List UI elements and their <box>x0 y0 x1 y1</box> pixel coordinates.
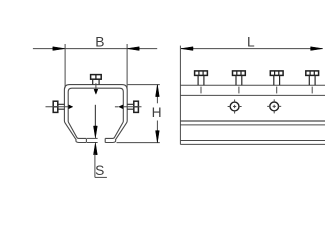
dimension line H upper <box>156 85 158 104</box>
rail top edge <box>180 84 325 86</box>
dimension line B <box>33 48 157 50</box>
svg-text:H: H <box>152 105 162 120</box>
right bolt shank <box>127 104 134 109</box>
rail lower inner line <box>180 140 325 142</box>
rail upper inner line <box>180 94 325 96</box>
extension line H top <box>128 84 160 86</box>
extension line B right <box>126 44 128 88</box>
rail middle line lower <box>180 124 325 126</box>
hole circle 1 <box>228 100 242 114</box>
right bolt centerline <box>123 106 142 108</box>
dimension line H lower <box>156 121 158 143</box>
S extension line lower <box>87 142 98 144</box>
S leader landing <box>95 176 107 178</box>
arrowhead L right <box>311 47 323 51</box>
top bolt head <box>91 75 102 80</box>
dimension line L <box>181 48 323 50</box>
extension line H bottom <box>117 142 160 144</box>
S arrow down <box>94 126 98 138</box>
left clamp arrow <box>69 105 73 109</box>
svg-text:S: S <box>95 163 104 178</box>
left bolt shank <box>58 104 65 109</box>
arrowhead H bottom <box>156 131 160 143</box>
top bolt centerline <box>95 83 97 89</box>
extension line B left <box>64 44 66 88</box>
rail bottom edge <box>180 143 325 145</box>
top bolt head facet line <box>95 75 97 80</box>
S extension line upper <box>87 137 98 139</box>
svg-text:B: B <box>95 34 104 49</box>
svg-text:L: L <box>247 34 255 49</box>
S leader lower line <box>94 154 96 178</box>
slot right end cap <box>104 138 106 142</box>
side bolt 3 <box>270 71 283 94</box>
top bolt shank <box>93 79 99 84</box>
side bolt 1 <box>195 71 208 94</box>
top clamp arrow <box>94 89 98 94</box>
profile inner contour <box>68 88 123 138</box>
arrowhead H top <box>156 85 160 97</box>
right bolt head <box>134 101 139 112</box>
left bolt head <box>53 101 58 112</box>
rail left end edge / L extension line <box>179 46 181 145</box>
left bolt head facet line <box>53 106 58 108</box>
arrowhead B left <box>53 47 65 51</box>
hole circle 2 <box>267 99 281 113</box>
rail middle line upper <box>180 120 325 122</box>
side bolt 2 <box>233 71 246 94</box>
side bolt 4 <box>306 71 319 94</box>
right bolt centerline dash <box>115 106 119 108</box>
slot left end cap <box>85 138 87 142</box>
left bolt centerline <box>46 106 69 108</box>
right clamp arrow <box>119 105 123 109</box>
arrowhead L left <box>181 47 193 51</box>
arrowhead B right <box>127 47 139 51</box>
profile outer contour <box>64 85 127 143</box>
S leader upper line <box>94 105 96 127</box>
S arrow up <box>94 143 98 155</box>
right bolt head facet line <box>134 106 139 108</box>
